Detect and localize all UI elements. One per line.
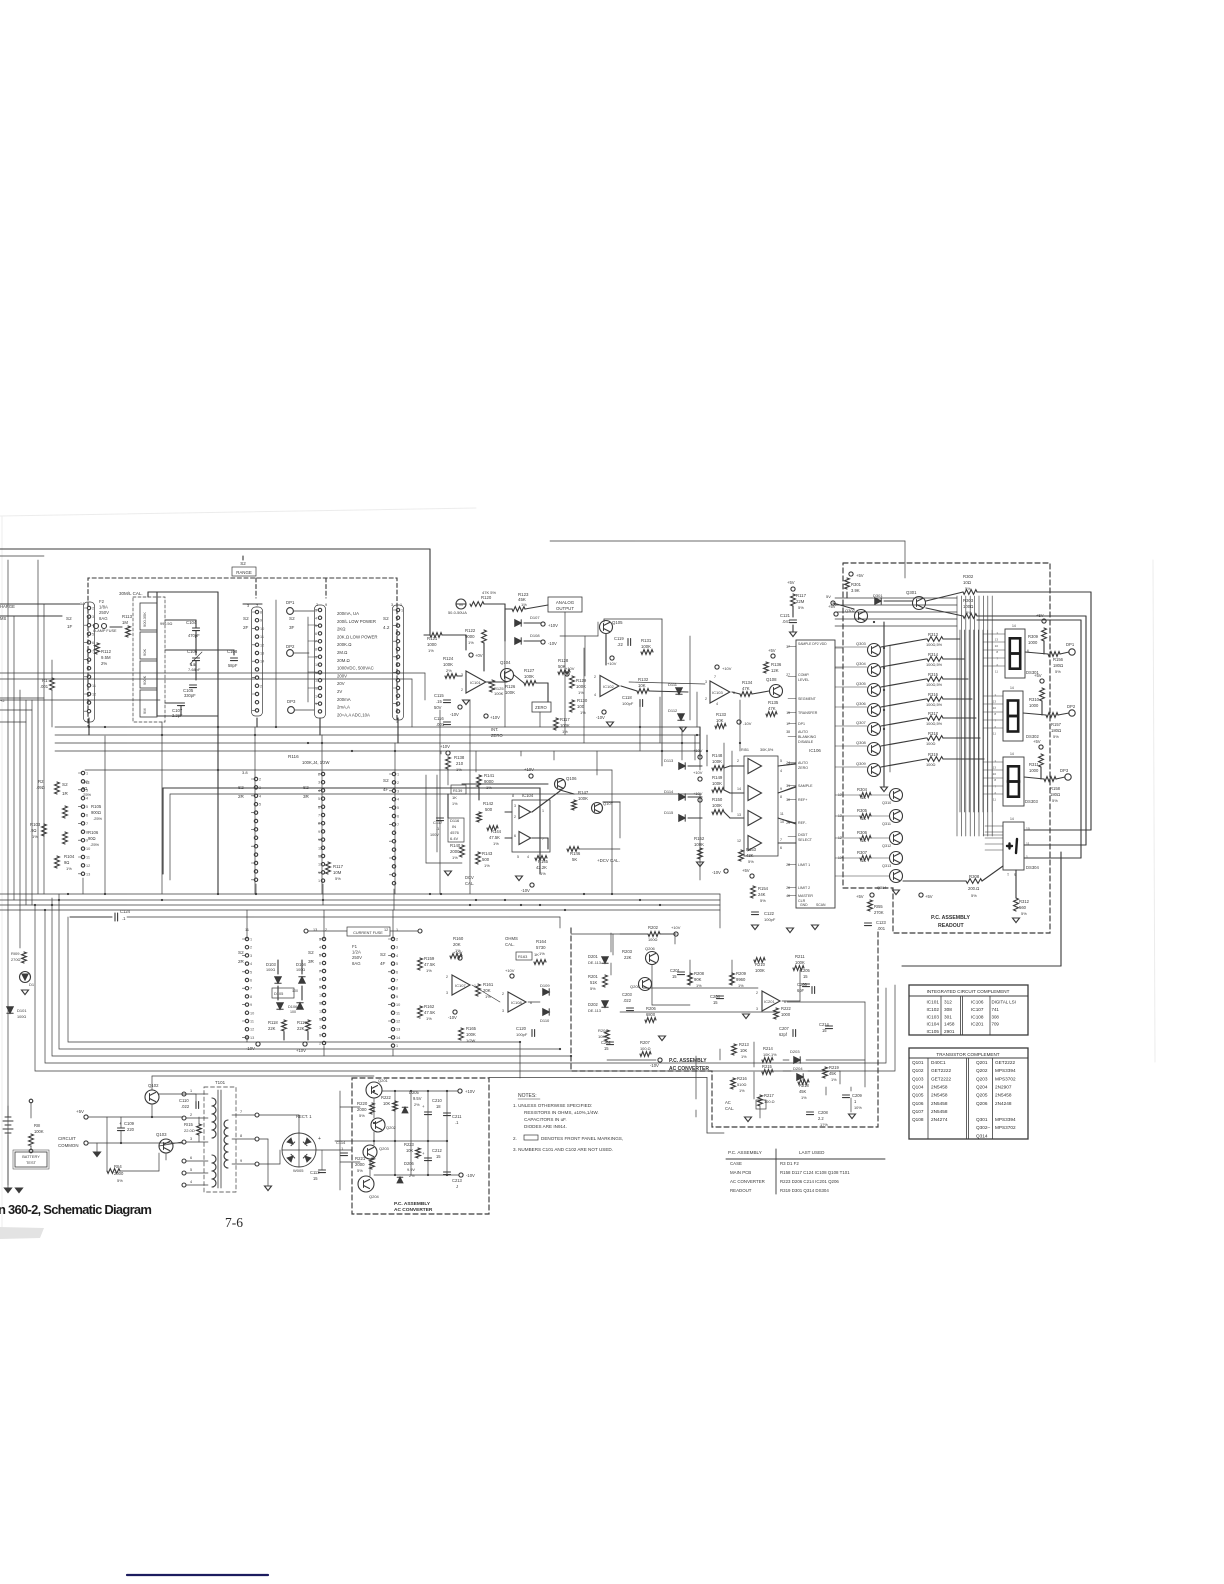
svg-text:5%: 5% (1055, 669, 1061, 674)
svg-text:D101: D101 (17, 1008, 27, 1013)
svg-text:Q104: Q104 (500, 660, 511, 665)
svg-text:4F: 4F (380, 961, 386, 966)
svg-text:+2: +2 (0, 698, 5, 703)
svg-text:R3 D1 F2: R3 D1 F2 (780, 1161, 799, 1166)
svg-text:9Ω: 9Ω (64, 860, 69, 865)
svg-text:C119: C119 (614, 636, 624, 641)
svg-text:+: + (119, 1121, 122, 1126)
svg-text:2R: 2R (238, 794, 245, 799)
svg-text:100V: 100V (430, 833, 439, 837)
svg-text:5%: 5% (1053, 734, 1059, 739)
svg-text:5%: 5% (359, 1113, 365, 1118)
svg-text:2000: 2000 (114, 1171, 124, 1176)
svg-text:500: 500 (485, 807, 493, 812)
svg-text:11: 11 (1026, 842, 1030, 846)
svg-text:R130: R130 (577, 698, 588, 703)
svg-text:6: 6 (190, 1156, 192, 1160)
svg-text:1000: 1000 (427, 642, 437, 647)
svg-text:Q201: Q201 (976, 1060, 988, 1065)
svg-text:9: 9 (315, 655, 317, 659)
svg-text:R150: R150 (712, 797, 723, 802)
svg-text:IC201: IC201 (764, 999, 775, 1004)
svg-text:AC CONVERTER: AC CONVERTER (730, 1179, 765, 1184)
svg-text:SAMPLE DP2 VDD: SAMPLE DP2 VDD (798, 642, 827, 646)
svg-text:2: 2 (996, 663, 998, 667)
svg-text:13: 13 (260, 652, 264, 656)
svg-text:2M.Ω: 2M.Ω (337, 650, 348, 655)
svg-text:CAL.: CAL. (725, 1106, 734, 1111)
svg-text:6: 6 (784, 1000, 786, 1004)
svg-text:4: 4 (315, 616, 317, 620)
svg-text:1: 1 (994, 693, 996, 697)
svg-text:10K: 10K (406, 1148, 414, 1153)
svg-text:R117: R117 (560, 717, 570, 722)
svg-text:29: 29 (786, 821, 790, 825)
svg-text:DIODES ARE IN914.: DIODES ARE IN914. (524, 1124, 567, 1129)
svg-text:20V: 20V (337, 681, 345, 686)
svg-text:+10V: +10V (693, 748, 703, 753)
svg-text:1%: 1% (493, 841, 499, 846)
svg-text:Q309: Q309 (856, 761, 867, 766)
svg-text:Q308: Q308 (856, 740, 867, 745)
svg-text:RII4: RII4 (114, 1164, 122, 1169)
svg-text:P.C. ASSEMBLY: P.C. ASSEMBLY (669, 1058, 707, 1064)
svg-text:9Ω: 9Ω (82, 786, 87, 791)
svg-text:Q106: Q106 (566, 776, 577, 781)
svg-text:7: 7 (240, 1110, 242, 1114)
svg-text:C207: C207 (779, 1026, 790, 1031)
svg-text:7: 7 (315, 640, 317, 644)
svg-text:6: 6 (1027, 649, 1029, 653)
svg-text:100Ω,5%: 100Ω,5% (926, 702, 943, 707)
svg-text:R141: R141 (484, 773, 495, 778)
svg-text:9000: 9000 (484, 779, 494, 784)
svg-text:D301: D301 (873, 593, 883, 598)
svg-text:43K: 43K (746, 853, 754, 858)
svg-text:22M: 22M (796, 599, 805, 604)
svg-text:100Ω: 100Ω (963, 604, 974, 609)
svg-text:180Ω: 180Ω (1051, 728, 1061, 733)
svg-text:308: 308 (944, 1007, 952, 1012)
svg-text:28: 28 (786, 863, 790, 867)
svg-text:8: 8 (260, 611, 262, 615)
svg-text:100K,J4, 1/2W: 100K,J4, 1/2W (302, 760, 330, 765)
svg-text:+10V: +10V (440, 744, 450, 749)
svg-text:.001: .001 (436, 722, 445, 727)
svg-text:R158 D117 C124 IC108 Q108: R158 D117 C124 IC108 Q108 T101 (780, 1170, 850, 1175)
svg-text:2N2907: 2N2907 (995, 1084, 1012, 1089)
svg-text:8AG: 8AG (352, 961, 361, 966)
svg-text:5730: 5730 (536, 945, 546, 950)
svg-text:R117: R117 (333, 864, 344, 869)
svg-text:R145: R145 (538, 859, 549, 864)
svg-text:10: 10 (1026, 827, 1030, 831)
svg-text:+10V: +10V (505, 968, 515, 973)
svg-text:C208: C208 (818, 1110, 829, 1115)
svg-text:5: 5 (315, 624, 317, 628)
svg-text:R152: R152 (694, 836, 705, 841)
svg-text:1M: 1M (122, 620, 128, 625)
svg-text:R103: R103 (30, 822, 41, 827)
svg-text:2901: 2901 (944, 1029, 955, 1034)
svg-text:1: 1 (400, 603, 402, 607)
svg-text:2: 2 (502, 992, 504, 996)
svg-text:1%: 1% (696, 983, 702, 988)
svg-text:Q301: Q301 (906, 590, 917, 595)
svg-text:+0V: +0V (475, 653, 483, 658)
svg-text:R222: R222 (781, 1006, 792, 1011)
svg-text:+5V: +5V (1034, 673, 1042, 678)
svg-text:100Ω: 100Ω (926, 741, 935, 746)
svg-text:R116: R116 (288, 754, 299, 759)
svg-text:1%: 1% (739, 1088, 745, 1093)
svg-text:9.5M: 9.5M (101, 655, 111, 660)
svg-text:+10V: +10V (490, 715, 500, 720)
svg-text:1%: 1% (66, 866, 72, 871)
svg-text:.1: .1 (455, 1120, 459, 1125)
svg-text:C104: C104 (186, 620, 197, 625)
svg-text:+5V: +5V (768, 648, 776, 653)
svg-text:8: 8 (994, 778, 996, 782)
svg-text:4: 4 (716, 702, 718, 706)
svg-text:4: 4 (190, 1180, 192, 1184)
svg-text:10K: 10K (716, 718, 724, 723)
svg-text:6: 6 (780, 846, 782, 850)
svg-text:24: 24 (786, 761, 790, 765)
svg-text:Q108: Q108 (766, 677, 777, 682)
svg-text:1: 1 (318, 879, 320, 883)
svg-text:13: 13 (318, 863, 322, 867)
svg-text:DISABLE: DISABLE (798, 740, 814, 744)
svg-text:Q102: Q102 (148, 1083, 159, 1088)
svg-text:C106: C106 (187, 649, 198, 654)
svg-text:RI15: RI15 (184, 1122, 194, 1127)
svg-text:GET2222: GET2222 (931, 1076, 951, 1081)
svg-text:7-6: 7-6 (225, 1215, 243, 1230)
svg-text:R305: R305 (857, 808, 868, 813)
svg-text:100Ω: 100Ω (266, 968, 275, 972)
svg-text:R132: R132 (638, 677, 649, 682)
svg-text:R134: R134 (742, 680, 753, 685)
svg-text:8: 8 (240, 1134, 242, 1138)
svg-text:1%: 1% (452, 855, 458, 860)
svg-text:6: 6 (315, 632, 317, 636)
svg-text:3.8: 3.8 (242, 770, 248, 775)
svg-text:10M: 10M (333, 870, 342, 875)
svg-text:CAL.: CAL. (505, 942, 515, 947)
svg-text:S2: S2 (308, 950, 314, 955)
svg-text:R223 D206 C214 IC201 Q206: R223 D206 C214 IC201 Q206 (780, 1179, 839, 1184)
svg-text:100Ω: 100Ω (296, 968, 305, 972)
svg-text:13: 13 (737, 813, 741, 817)
svg-text:3F: 3F (289, 625, 295, 630)
svg-text:308: 308 (992, 1014, 1000, 1019)
svg-text:1: 1 (474, 984, 476, 988)
svg-text:100.Ω: 100.Ω (764, 1099, 775, 1104)
svg-text:D116: D116 (450, 818, 460, 823)
svg-text:R127: R127 (524, 668, 535, 673)
svg-text:C120: C120 (516, 1026, 527, 1031)
svg-text:.25%: .25% (82, 792, 92, 797)
svg-text:100: 100 (577, 704, 585, 709)
svg-text:27: 27 (786, 673, 790, 677)
svg-text:R119: R119 (297, 1020, 307, 1025)
svg-text:250V: 250V (352, 955, 362, 960)
svg-text:HARGE: HARGE (0, 604, 15, 609)
svg-text:3: 3 (92, 615, 94, 619)
svg-text:+5V: +5V (828, 604, 836, 609)
svg-text:5%: 5% (748, 859, 754, 864)
svg-text:2R: 2R (238, 959, 245, 964)
svg-text:R135: R135 (768, 700, 779, 705)
svg-text:15: 15 (672, 974, 677, 979)
svg-text:C202: C202 (601, 1040, 612, 1045)
svg-text:C124: C124 (120, 909, 131, 914)
svg-text:DP1: DP1 (1066, 642, 1075, 647)
svg-text:100K: 100K (576, 684, 586, 689)
svg-text:1: 1 (854, 1099, 857, 1104)
svg-text:11: 11 (86, 856, 90, 860)
svg-text:D113: D113 (664, 758, 674, 763)
svg-text:26: 26 (786, 886, 790, 890)
svg-text:D110: D110 (540, 1018, 550, 1023)
svg-text:1%: 1% (32, 834, 38, 839)
svg-text:.22: .22 (617, 642, 623, 647)
svg-text:1%: 1% (426, 968, 432, 973)
svg-text:2: 2 (514, 815, 516, 819)
svg-text:1000VDC, 500VAC: 1000VDC, 500VAC (337, 666, 374, 671)
svg-text:R211: R211 (795, 954, 805, 959)
svg-text:7: 7 (714, 675, 716, 679)
svg-text:5%: 5% (1052, 798, 1058, 803)
svg-text:R142: R142 (483, 801, 494, 806)
svg-text:62pf: 62pf (779, 1032, 788, 1037)
svg-text:12: 12 (737, 839, 741, 843)
svg-text:MASTER: MASTER (798, 894, 813, 898)
svg-text:2.: 2. (513, 1136, 517, 1141)
svg-text:R315: R315 (928, 672, 939, 677)
svg-text:R163: R163 (518, 954, 527, 959)
svg-text:5: 5 (190, 1168, 192, 1172)
svg-text:100pF: 100pF (516, 1032, 528, 1037)
svg-text:IC107: IC107 (971, 1007, 984, 1012)
svg-text:10: 10 (318, 838, 322, 842)
svg-text:2.2: 2.2 (818, 1116, 824, 1121)
svg-text:200V: 200V (337, 673, 347, 678)
svg-text:-10V: -10V (448, 1015, 457, 1020)
svg-text:1. UNLESS OTHERWISE SPECIFIED: 1. UNLESS OTHERWISE SPECIFIED: (513, 1103, 592, 1108)
svg-text:ZERO: ZERO (798, 766, 808, 770)
svg-text:+10V: +10V (565, 666, 575, 671)
svg-text:1: 1 (86, 772, 88, 776)
svg-text:Q305: Q305 (856, 681, 867, 686)
svg-text:IC201: IC201 (971, 1022, 984, 1027)
svg-text:IN: IN (452, 824, 456, 829)
svg-text:AUTO: AUTO (798, 761, 808, 765)
svg-text:IC102: IC102 (926, 1007, 939, 1012)
svg-text:R162: R162 (424, 1004, 435, 1009)
svg-text:R2: R2 (38, 779, 44, 784)
svg-text:C201: C201 (670, 968, 681, 973)
svg-text:3. NUMBERS C101 AND C102 ARE: 3. NUMBERS C101 AND C102 ARE NOT USED. (513, 1147, 613, 1152)
svg-text:10K: 10K (740, 1048, 748, 1053)
svg-text:.047: .047 (782, 619, 791, 624)
svg-text:20=A,A ADC,10A: 20=A,A ADC,10A (337, 712, 370, 717)
svg-text:12': 12' (838, 836, 843, 840)
svg-text:100K: 100K (505, 690, 515, 695)
svg-text:R207: R207 (640, 1040, 651, 1045)
svg-text:IC102: IC102 (603, 684, 614, 689)
svg-text:+: + (422, 1151, 425, 1156)
svg-text:IC106: IC106 (809, 748, 821, 753)
svg-text:14: 14 (737, 787, 741, 791)
svg-text:20K.Ω LOW POWER: 20K.Ω LOW POWER (337, 634, 377, 639)
svg-text:R160: R160 (453, 936, 464, 941)
svg-text:Q107: Q107 (912, 1109, 924, 1114)
svg-text:10*: 10* (838, 856, 844, 860)
svg-text:R147: R147 (578, 790, 589, 795)
svg-text:2N5458: 2N5458 (995, 1093, 1012, 1098)
svg-text:15: 15 (313, 1176, 318, 1181)
svg-text:7: 7 (396, 979, 398, 983)
svg-text:180Ω: 180Ω (1050, 792, 1060, 797)
svg-text:C109: C109 (124, 1121, 135, 1126)
svg-text:LIMIT 1: LIMIT 1 (798, 863, 810, 867)
svg-text:1000: 1000 (781, 1012, 791, 1017)
svg-text:4: 4 (319, 946, 321, 950)
svg-text:C212: C212 (432, 1148, 443, 1153)
svg-text:R206: R206 (646, 1006, 657, 1011)
svg-text:R312: R312 (1019, 899, 1030, 904)
svg-text:1R: 1R (62, 791, 69, 796)
svg-text:TRANSISTOR COMPLEMENT: TRANSISTOR COMPLEMENT (936, 1052, 999, 1057)
svg-text:GET2222: GET2222 (931, 1068, 951, 1073)
svg-text:7: 7 (92, 650, 94, 654)
svg-text:R159: R159 (424, 956, 435, 961)
svg-text:+10V: +10V (548, 623, 558, 628)
svg-text:2F: 2F (243, 625, 249, 630)
svg-text:3: 3 (247, 604, 249, 608)
svg-text:DP1: DP1 (286, 600, 295, 605)
svg-text:S2: S2 (240, 561, 246, 566)
svg-text:R1: R1 (42, 678, 48, 683)
svg-text:1: 1 (542, 809, 544, 813)
svg-text:BLANKING: BLANKING (798, 735, 816, 739)
svg-text:1: 1 (396, 928, 398, 932)
svg-text:C114: C114 (336, 1140, 346, 1145)
svg-text:DE-113: DE-113 (588, 960, 601, 965)
svg-text:SEGMENT: SEGMENT (798, 697, 817, 701)
svg-text:D201: D201 (588, 954, 599, 959)
svg-text:2: 2 (994, 725, 996, 729)
svg-text:1%: 1% (539, 951, 545, 956)
svg-text:Q203: Q203 (379, 1146, 390, 1151)
svg-text:RI51: RI51 (741, 748, 749, 752)
svg-text:3R: 3R (303, 794, 310, 799)
svg-text:7: 7 (319, 970, 321, 974)
svg-text:9.9V: 9.9V (407, 1167, 415, 1172)
svg-text:P.C. ASSEMBLY: P.C. ASSEMBLY (931, 915, 971, 921)
svg-text:+10V: +10V (607, 661, 617, 666)
svg-text:11: 11 (319, 1002, 323, 1006)
svg-text:R165: R165 (466, 1026, 477, 1031)
svg-text:5%: 5% (966, 610, 972, 615)
svg-text:.022: .022 (181, 1104, 190, 1109)
svg-text:1%: 1% (738, 983, 744, 988)
svg-text:2.2pF: 2.2pF (172, 713, 183, 718)
svg-text:O-AMP FUSE: O-AMP FUSE (93, 629, 117, 633)
svg-text:-10V: -10V (743, 721, 752, 726)
svg-text:9.5V: 9.5V (413, 1096, 422, 1101)
svg-text:DS303: DS303 (1025, 799, 1038, 804)
svg-text:42.2K: 42.2K (536, 865, 547, 870)
svg-text:100Ω,5%: 100Ω,5% (926, 682, 943, 687)
svg-text:10K: 10K (383, 1101, 391, 1106)
svg-text:P.C. ASSEMBLY: P.C. ASSEMBLY (728, 1150, 762, 1155)
svg-text:6: 6 (396, 970, 398, 974)
svg-text:2: 2 (461, 688, 463, 692)
svg-text:100K: 100K (694, 842, 704, 847)
svg-text:C121: C121 (780, 613, 791, 618)
svg-text:R316: R316 (928, 692, 939, 697)
svg-text:3: 3 (446, 991, 448, 995)
svg-text:8: 8 (780, 795, 782, 799)
svg-text:Q204: Q204 (369, 1194, 380, 1199)
svg-text:15: 15 (713, 1000, 718, 1005)
svg-text:D114: D114 (664, 789, 674, 794)
svg-text:45K: 45K (829, 1071, 837, 1076)
svg-text:12: 12 (384, 928, 388, 932)
svg-text:DE-113: DE-113 (588, 1008, 601, 1013)
svg-text:+10V: +10V (524, 767, 534, 772)
svg-text:1: 1 (396, 1044, 398, 1048)
svg-text:+10V: +10V (693, 791, 703, 796)
svg-text:3: 3 (190, 1137, 192, 1141)
svg-text:6pF: 6pF (797, 988, 805, 993)
svg-text:R310: R310 (1029, 697, 1040, 702)
svg-text:IC105: IC105 (926, 1029, 939, 1034)
svg-text:C117: C117 (433, 820, 443, 825)
svg-text:1%: 1% (801, 1095, 807, 1100)
svg-text:210: 210 (456, 761, 464, 766)
svg-text:OUTPUT: OUTPUT (556, 606, 574, 611)
svg-text:R139: R139 (453, 788, 462, 793)
svg-text:1000: 1000 (1028, 640, 1038, 645)
svg-text:SCAN: SCAN (816, 903, 826, 907)
svg-text:DIGIT: DIGIT (798, 833, 808, 837)
svg-text:1: 1 (397, 773, 399, 777)
svg-text:D103: D103 (266, 962, 277, 967)
svg-text:14: 14 (260, 660, 264, 664)
svg-text:R202: R202 (648, 925, 659, 930)
svg-text:D115: D115 (664, 810, 674, 815)
svg-text:+5V: +5V (1036, 613, 1044, 618)
svg-text:ZERO: ZERO (491, 733, 503, 738)
svg-text:1000: 1000 (1029, 768, 1039, 773)
svg-text:22.0Ω: 22.0Ω (184, 1128, 195, 1133)
svg-text:Q201: Q201 (378, 1078, 389, 1083)
svg-text:2: 2 (705, 697, 707, 701)
svg-text:IC106: IC106 (971, 1000, 984, 1005)
svg-text:R164: R164 (536, 939, 547, 944)
svg-text:.25%: .25% (90, 842, 100, 847)
svg-text:13: 13 (86, 872, 90, 876)
svg-text:11: 11 (245, 928, 249, 932)
svg-text:+10V: +10V (453, 950, 463, 955)
svg-text:1%: 1% (456, 767, 462, 772)
svg-text:Q106: Q106 (912, 1101, 924, 1106)
svg-text:301: 301 (944, 1014, 952, 1019)
